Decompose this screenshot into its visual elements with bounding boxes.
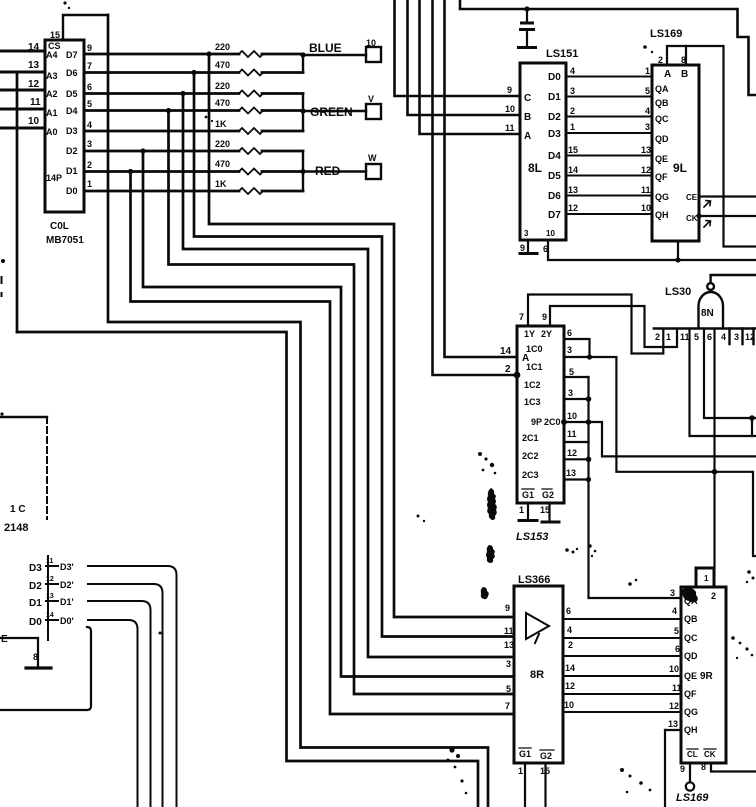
- svg-text:9P: 9P: [531, 417, 542, 427]
- svg-text:6: 6: [566, 606, 571, 616]
- svg-text:14: 14: [565, 663, 575, 673]
- svg-text:2C0: 2C0: [544, 417, 561, 427]
- svg-text:4: 4: [567, 625, 572, 635]
- svg-text:10: 10: [564, 700, 574, 710]
- svg-text:D5: D5: [66, 89, 78, 99]
- svg-text:14: 14: [28, 42, 40, 53]
- svg-text:5: 5: [674, 626, 679, 636]
- svg-text:3: 3: [570, 86, 575, 96]
- svg-text:D2: D2: [66, 146, 78, 156]
- svg-text:6: 6: [87, 82, 92, 92]
- svg-text:1K: 1K: [215, 119, 227, 129]
- svg-text:11: 11: [504, 626, 514, 636]
- svg-text:2: 2: [87, 160, 92, 170]
- svg-text:QG: QG: [655, 192, 669, 202]
- svg-text:D1: D1: [66, 166, 78, 176]
- svg-text:QB: QB: [655, 98, 669, 108]
- svg-text:10: 10: [505, 104, 515, 114]
- svg-text:2C2: 2C2: [522, 451, 539, 461]
- svg-text:D5: D5: [548, 171, 561, 182]
- svg-text:G2: G2: [542, 490, 554, 500]
- svg-text:QB: QB: [684, 614, 698, 624]
- svg-text:2: 2: [655, 332, 660, 342]
- svg-text:3: 3: [87, 139, 92, 149]
- svg-text:D4: D4: [548, 151, 561, 162]
- svg-text:9L: 9L: [673, 161, 687, 175]
- svg-text:8L: 8L: [528, 161, 542, 175]
- svg-text:12: 12: [568, 203, 578, 213]
- svg-text:G2: G2: [540, 751, 552, 761]
- svg-text:470: 470: [215, 60, 230, 70]
- svg-text:8N: 8N: [701, 308, 714, 319]
- svg-text:A: A: [664, 69, 671, 80]
- svg-text:11: 11: [680, 332, 690, 342]
- svg-text:1: 1: [570, 122, 575, 132]
- svg-text:D6: D6: [66, 68, 78, 78]
- svg-text:B: B: [524, 112, 531, 123]
- svg-text:15: 15: [50, 30, 60, 40]
- svg-text:1C2: 1C2: [524, 380, 541, 390]
- svg-text:12: 12: [641, 165, 651, 175]
- svg-text:10: 10: [28, 116, 40, 127]
- svg-text:3: 3: [506, 659, 511, 669]
- svg-text:2: 2: [658, 55, 663, 65]
- svg-text:6: 6: [707, 332, 712, 342]
- svg-text:A3: A3: [46, 71, 58, 81]
- svg-text:W: W: [368, 153, 377, 163]
- svg-text:12: 12: [565, 681, 575, 691]
- svg-text:D7: D7: [548, 210, 561, 221]
- svg-text:1C3: 1C3: [524, 397, 541, 407]
- svg-text:1Y: 1Y: [524, 329, 535, 339]
- svg-text:2148: 2148: [4, 522, 28, 534]
- svg-text:QE: QE: [684, 671, 697, 681]
- svg-text:11: 11: [672, 683, 682, 693]
- svg-text:8R: 8R: [530, 669, 544, 681]
- svg-text:11: 11: [46, 558, 54, 565]
- svg-text:QC: QC: [684, 633, 698, 643]
- svg-text:11: 11: [505, 123, 515, 133]
- svg-text:2: 2: [568, 640, 573, 650]
- svg-text:9: 9: [507, 85, 512, 95]
- svg-text:D3': D3': [60, 562, 74, 572]
- svg-text:470: 470: [215, 98, 230, 108]
- svg-text:8: 8: [33, 652, 38, 662]
- svg-text:15: 15: [568, 145, 578, 155]
- svg-text:13: 13: [566, 468, 576, 478]
- svg-text:1 C: 1 C: [10, 504, 26, 515]
- svg-text:7: 7: [519, 312, 524, 322]
- svg-text:9: 9: [505, 603, 510, 613]
- svg-text:9R: 9R: [700, 671, 714, 682]
- svg-text:9: 9: [680, 764, 685, 774]
- svg-text:3: 3: [670, 588, 675, 598]
- svg-text:220: 220: [215, 139, 230, 149]
- svg-text:D2: D2: [548, 112, 561, 123]
- svg-text:10: 10: [366, 38, 376, 48]
- svg-text:3: 3: [524, 229, 529, 238]
- svg-text:4: 4: [721, 332, 726, 342]
- svg-text:2: 2: [505, 364, 511, 375]
- svg-text:14: 14: [46, 612, 54, 619]
- svg-text:13: 13: [46, 593, 54, 600]
- svg-text:LS153: LS153: [516, 531, 548, 543]
- svg-text:BLUE: BLUE: [309, 41, 342, 55]
- svg-text:D7: D7: [66, 50, 78, 60]
- svg-text:2C3: 2C3: [522, 470, 539, 480]
- svg-text:B: B: [681, 69, 688, 80]
- svg-text:D3: D3: [66, 126, 78, 136]
- svg-text:13: 13: [504, 640, 514, 650]
- svg-text:A2: A2: [46, 89, 58, 99]
- svg-text:1: 1: [519, 505, 524, 515]
- svg-text:2C1: 2C1: [522, 433, 539, 443]
- svg-text:12: 12: [567, 448, 577, 458]
- svg-text:V: V: [368, 94, 374, 104]
- svg-text:13: 13: [28, 60, 40, 71]
- svg-text:D1: D1: [29, 598, 42, 609]
- svg-text:D2: D2: [29, 581, 42, 592]
- svg-text:GREEN: GREEN: [310, 105, 353, 119]
- svg-text:D1': D1': [60, 597, 74, 607]
- svg-text:LS366: LS366: [518, 574, 550, 586]
- svg-text:D4: D4: [66, 106, 78, 116]
- svg-text:1: 1: [666, 332, 671, 342]
- svg-text:QE: QE: [655, 154, 668, 164]
- svg-text:1: 1: [87, 179, 92, 189]
- svg-text:10: 10: [641, 203, 651, 213]
- svg-text:QC: QC: [655, 114, 669, 124]
- svg-text:3: 3: [734, 332, 739, 342]
- svg-text:D1: D1: [548, 92, 561, 103]
- svg-text:11: 11: [567, 429, 577, 439]
- svg-text:10: 10: [546, 229, 555, 238]
- svg-text:RED: RED: [315, 164, 341, 178]
- svg-text:1K: 1K: [215, 179, 227, 189]
- svg-text:4: 4: [645, 106, 650, 116]
- svg-text:9: 9: [520, 243, 525, 253]
- svg-text:14: 14: [500, 346, 512, 357]
- svg-text:LS169: LS169: [676, 792, 709, 804]
- svg-text:7: 7: [87, 61, 92, 71]
- svg-text:D0': D0': [60, 616, 74, 626]
- svg-text:3: 3: [567, 345, 572, 355]
- svg-text:LS169: LS169: [650, 28, 682, 40]
- svg-text:QH: QH: [684, 725, 698, 735]
- svg-text:A: A: [524, 131, 531, 142]
- svg-text:13: 13: [568, 185, 578, 195]
- svg-text:2: 2: [570, 106, 575, 116]
- svg-text:QD: QD: [655, 134, 669, 144]
- svg-text:D6: D6: [548, 191, 561, 202]
- svg-text:E: E: [1, 634, 8, 645]
- svg-text:LS30: LS30: [665, 286, 691, 298]
- svg-text:G1: G1: [519, 749, 531, 759]
- svg-text:11: 11: [641, 185, 651, 195]
- svg-text:A0: A0: [46, 127, 58, 137]
- svg-text:12: 12: [669, 701, 679, 711]
- svg-text:QF: QF: [684, 689, 697, 699]
- svg-text:QA: QA: [655, 84, 669, 94]
- svg-text:2Y: 2Y: [541, 329, 552, 339]
- svg-text:QF: QF: [655, 172, 668, 182]
- svg-text:CK: CK: [686, 214, 698, 223]
- svg-text:1: 1: [645, 66, 650, 76]
- svg-text:6: 6: [675, 644, 680, 654]
- svg-text:12: 12: [745, 332, 755, 342]
- svg-text:3: 3: [568, 388, 573, 398]
- svg-text:12: 12: [46, 576, 54, 583]
- svg-text:12: 12: [28, 79, 40, 90]
- svg-text:CE: CE: [686, 193, 698, 202]
- svg-text:470: 470: [215, 159, 230, 169]
- svg-text:MB7051: MB7051: [46, 235, 84, 246]
- svg-text:4: 4: [672, 606, 677, 616]
- svg-text:14: 14: [568, 165, 578, 175]
- svg-text:13: 13: [641, 145, 651, 155]
- svg-text:D0: D0: [66, 186, 78, 196]
- svg-text:1C1: 1C1: [526, 362, 543, 372]
- svg-text:220: 220: [215, 81, 230, 91]
- svg-text:2: 2: [711, 591, 716, 601]
- svg-text:1: 1: [704, 574, 709, 583]
- svg-text:6: 6: [567, 328, 572, 338]
- svg-text:C: C: [524, 93, 531, 104]
- svg-text:QG: QG: [684, 707, 698, 717]
- svg-text:10: 10: [669, 664, 679, 674]
- svg-text:5: 5: [506, 684, 511, 694]
- svg-text:D0: D0: [29, 617, 42, 628]
- svg-text:D3: D3: [548, 129, 561, 140]
- svg-text:9: 9: [542, 312, 547, 322]
- svg-text:A1: A1: [46, 108, 58, 118]
- svg-text:D2': D2': [60, 580, 74, 590]
- svg-text:C0L: C0L: [50, 221, 69, 232]
- svg-text:8: 8: [701, 762, 706, 772]
- svg-text:7: 7: [505, 701, 510, 711]
- svg-text:13: 13: [668, 719, 678, 729]
- svg-text:8: 8: [681, 55, 686, 65]
- svg-text:QA: QA: [684, 596, 698, 606]
- svg-text:D0: D0: [548, 72, 561, 83]
- svg-text:5: 5: [87, 99, 92, 109]
- svg-text:11: 11: [30, 97, 41, 108]
- svg-text:3: 3: [645, 122, 650, 132]
- svg-text:10: 10: [567, 411, 577, 421]
- svg-text:A4: A4: [46, 50, 58, 60]
- svg-text:G1: G1: [522, 490, 534, 500]
- svg-text:CK: CK: [704, 750, 716, 759]
- svg-text:1: 1: [518, 766, 523, 776]
- svg-text:5: 5: [645, 86, 650, 96]
- svg-text:220: 220: [215, 42, 230, 52]
- svg-text:4: 4: [87, 120, 92, 130]
- svg-text:D3: D3: [29, 563, 42, 574]
- svg-text:QH: QH: [655, 210, 669, 220]
- svg-text:14P: 14P: [46, 173, 62, 183]
- svg-text:LS151: LS151: [546, 48, 578, 60]
- svg-text:QD: QD: [684, 651, 698, 661]
- svg-text:6: 6: [543, 244, 548, 254]
- svg-text:15: 15: [540, 766, 550, 776]
- svg-text:15: 15: [540, 505, 550, 515]
- svg-text:5: 5: [569, 367, 574, 377]
- svg-text:9: 9: [87, 43, 92, 53]
- svg-text:4: 4: [570, 66, 575, 76]
- svg-text:1C0: 1C0: [526, 344, 543, 354]
- svg-text:CL: CL: [687, 750, 698, 759]
- svg-text:5: 5: [694, 332, 699, 342]
